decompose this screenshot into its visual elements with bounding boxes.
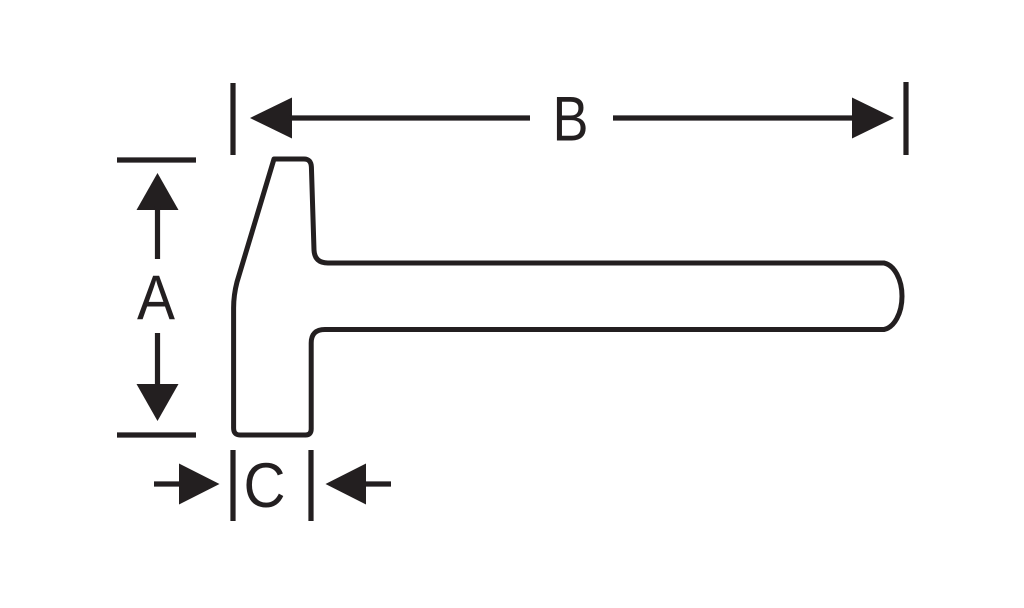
dimension A: down arrowhead <box>137 384 179 421</box>
dimension B: right line segment <box>613 115 854 120</box>
dimension B: left arrowhead <box>250 98 292 139</box>
svg-text:B: B <box>553 85 589 155</box>
dimension A: lower stem <box>155 333 160 386</box>
dimension B: left line segment <box>289 115 530 120</box>
dimension B: right arrowhead <box>852 98 894 139</box>
dimension B: left extension tick <box>230 83 235 155</box>
dimension A: top extension tick <box>117 157 196 162</box>
dimension B: right extension tick <box>903 82 908 155</box>
hammer outline <box>234 159 902 435</box>
dimension C: left arrowhead (pointing right) <box>179 464 220 505</box>
dimension C: right arrowhead (pointing left) <box>326 464 367 505</box>
dimension C: right extension tick <box>308 450 313 521</box>
dimension A: up arrowhead <box>137 173 179 210</box>
dimension A: upper stem <box>155 206 160 259</box>
dimension C: left extension tick <box>230 450 235 521</box>
dimension A: bottom extension tick <box>117 432 196 437</box>
dimension C: right tail line <box>364 481 391 486</box>
dimension C: left tail line <box>154 481 181 486</box>
svg-text:A: A <box>137 263 175 333</box>
svg-text:C: C <box>244 451 286 521</box>
